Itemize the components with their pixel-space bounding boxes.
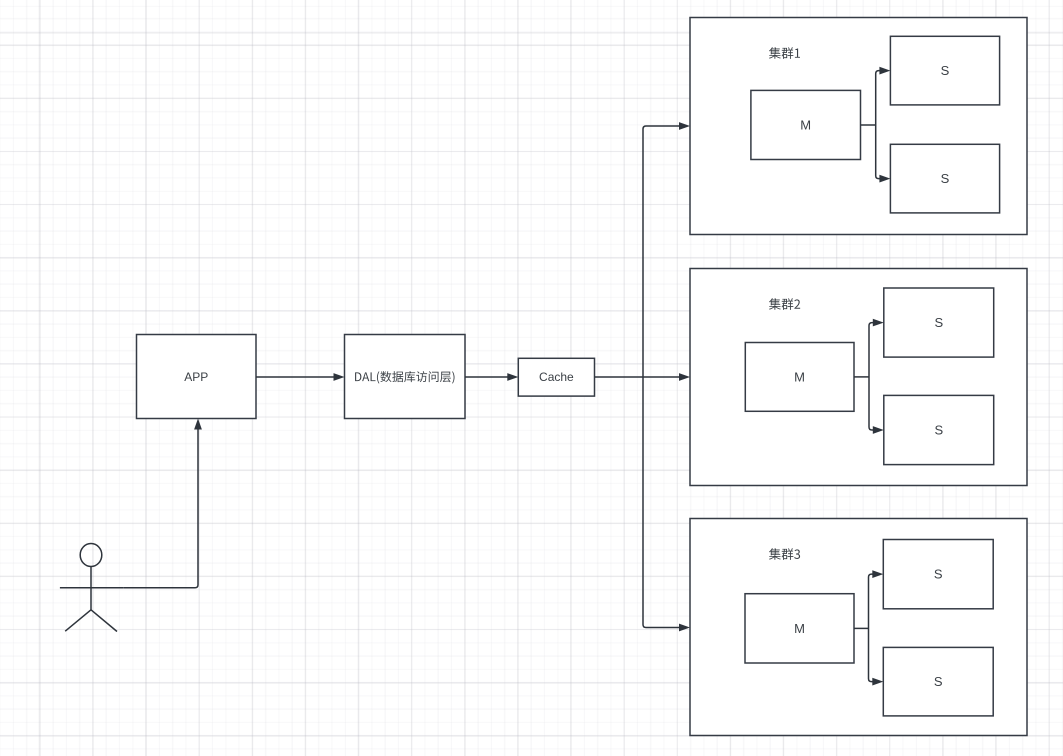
svg-text:M: M [800, 118, 811, 133]
box APP [137, 335, 257, 419]
box M (master) cluster 1 [751, 90, 861, 159]
arrowhead into S bottom cluster 3 [872, 678, 883, 686]
label 集群2 [769, 298, 800, 310]
arrowhead into APP bottom [194, 419, 202, 430]
wire APP to DAL [256, 376, 335, 378]
box S (slave 2) cluster 3 [883, 647, 993, 716]
label 集群1 [769, 47, 800, 59]
cluster 2 container [690, 269, 1027, 486]
arrowhead into cluster 2 [679, 373, 690, 381]
actor body [90, 567, 92, 610]
wire M to elbow cluster 2 [854, 376, 869, 378]
svg-text:S: S [941, 171, 950, 186]
svg-text:M: M [794, 369, 805, 384]
wire elbow to slaves cluster 1 [876, 71, 881, 179]
arrowhead into S top cluster 3 [872, 570, 883, 578]
arrowhead into S bottom cluster 2 [873, 426, 884, 434]
arrowhead into cluster 3 [679, 624, 690, 632]
box S (slave 2) cluster 2 [884, 395, 994, 464]
cluster 1 container [690, 18, 1027, 235]
box S (slave 1) cluster 3 [883, 540, 993, 609]
box S (slave 2) cluster 1 [890, 144, 999, 213]
svg-text:S: S [934, 315, 943, 330]
trunk wire with branches to cluster 1 and cluster 3 [643, 126, 680, 628]
box S (slave 1) cluster 2 [884, 288, 994, 357]
svg-text:Cache: Cache [539, 370, 574, 384]
arrowhead into Cache [507, 373, 518, 381]
wire DAL to Cache [465, 376, 508, 378]
svg-text:S: S [934, 423, 943, 438]
actor left leg [65, 610, 91, 631]
arrowhead into S top cluster 1 [879, 67, 890, 75]
arrowhead into S bottom cluster 1 [879, 175, 890, 183]
wire Cache to cluster 2 [595, 376, 681, 378]
cluster 3 container [690, 519, 1027, 736]
actor right leg [91, 610, 117, 632]
label DAL(数据库访问层) [355, 371, 454, 383]
box Cache [518, 358, 594, 396]
actor arms [60, 587, 123, 589]
label 集群3 [769, 548, 800, 560]
svg-text:APP: APP [184, 370, 208, 384]
box S (slave 1) cluster 1 [890, 36, 999, 105]
box DAL (database access layer) [345, 335, 466, 419]
box M (master) cluster 3 [745, 594, 854, 663]
svg-text:M: M [794, 621, 805, 636]
wire actor to APP [123, 429, 198, 588]
arrowhead into DAL [334, 373, 345, 381]
wire M to elbow cluster 1 [861, 124, 876, 126]
svg-text:S: S [934, 567, 943, 582]
svg-text:S: S [941, 63, 950, 78]
wire elbow to slaves cluster 2 [869, 323, 874, 430]
arrowhead into S top cluster 2 [873, 319, 884, 327]
arrowhead into cluster 1 [679, 122, 690, 130]
svg-text:S: S [934, 674, 943, 689]
actor head [80, 544, 102, 567]
wire M to elbow cluster 3 [854, 627, 869, 629]
box M (master) cluster 2 [745, 343, 854, 412]
wire elbow to slaves cluster 3 [869, 574, 874, 682]
